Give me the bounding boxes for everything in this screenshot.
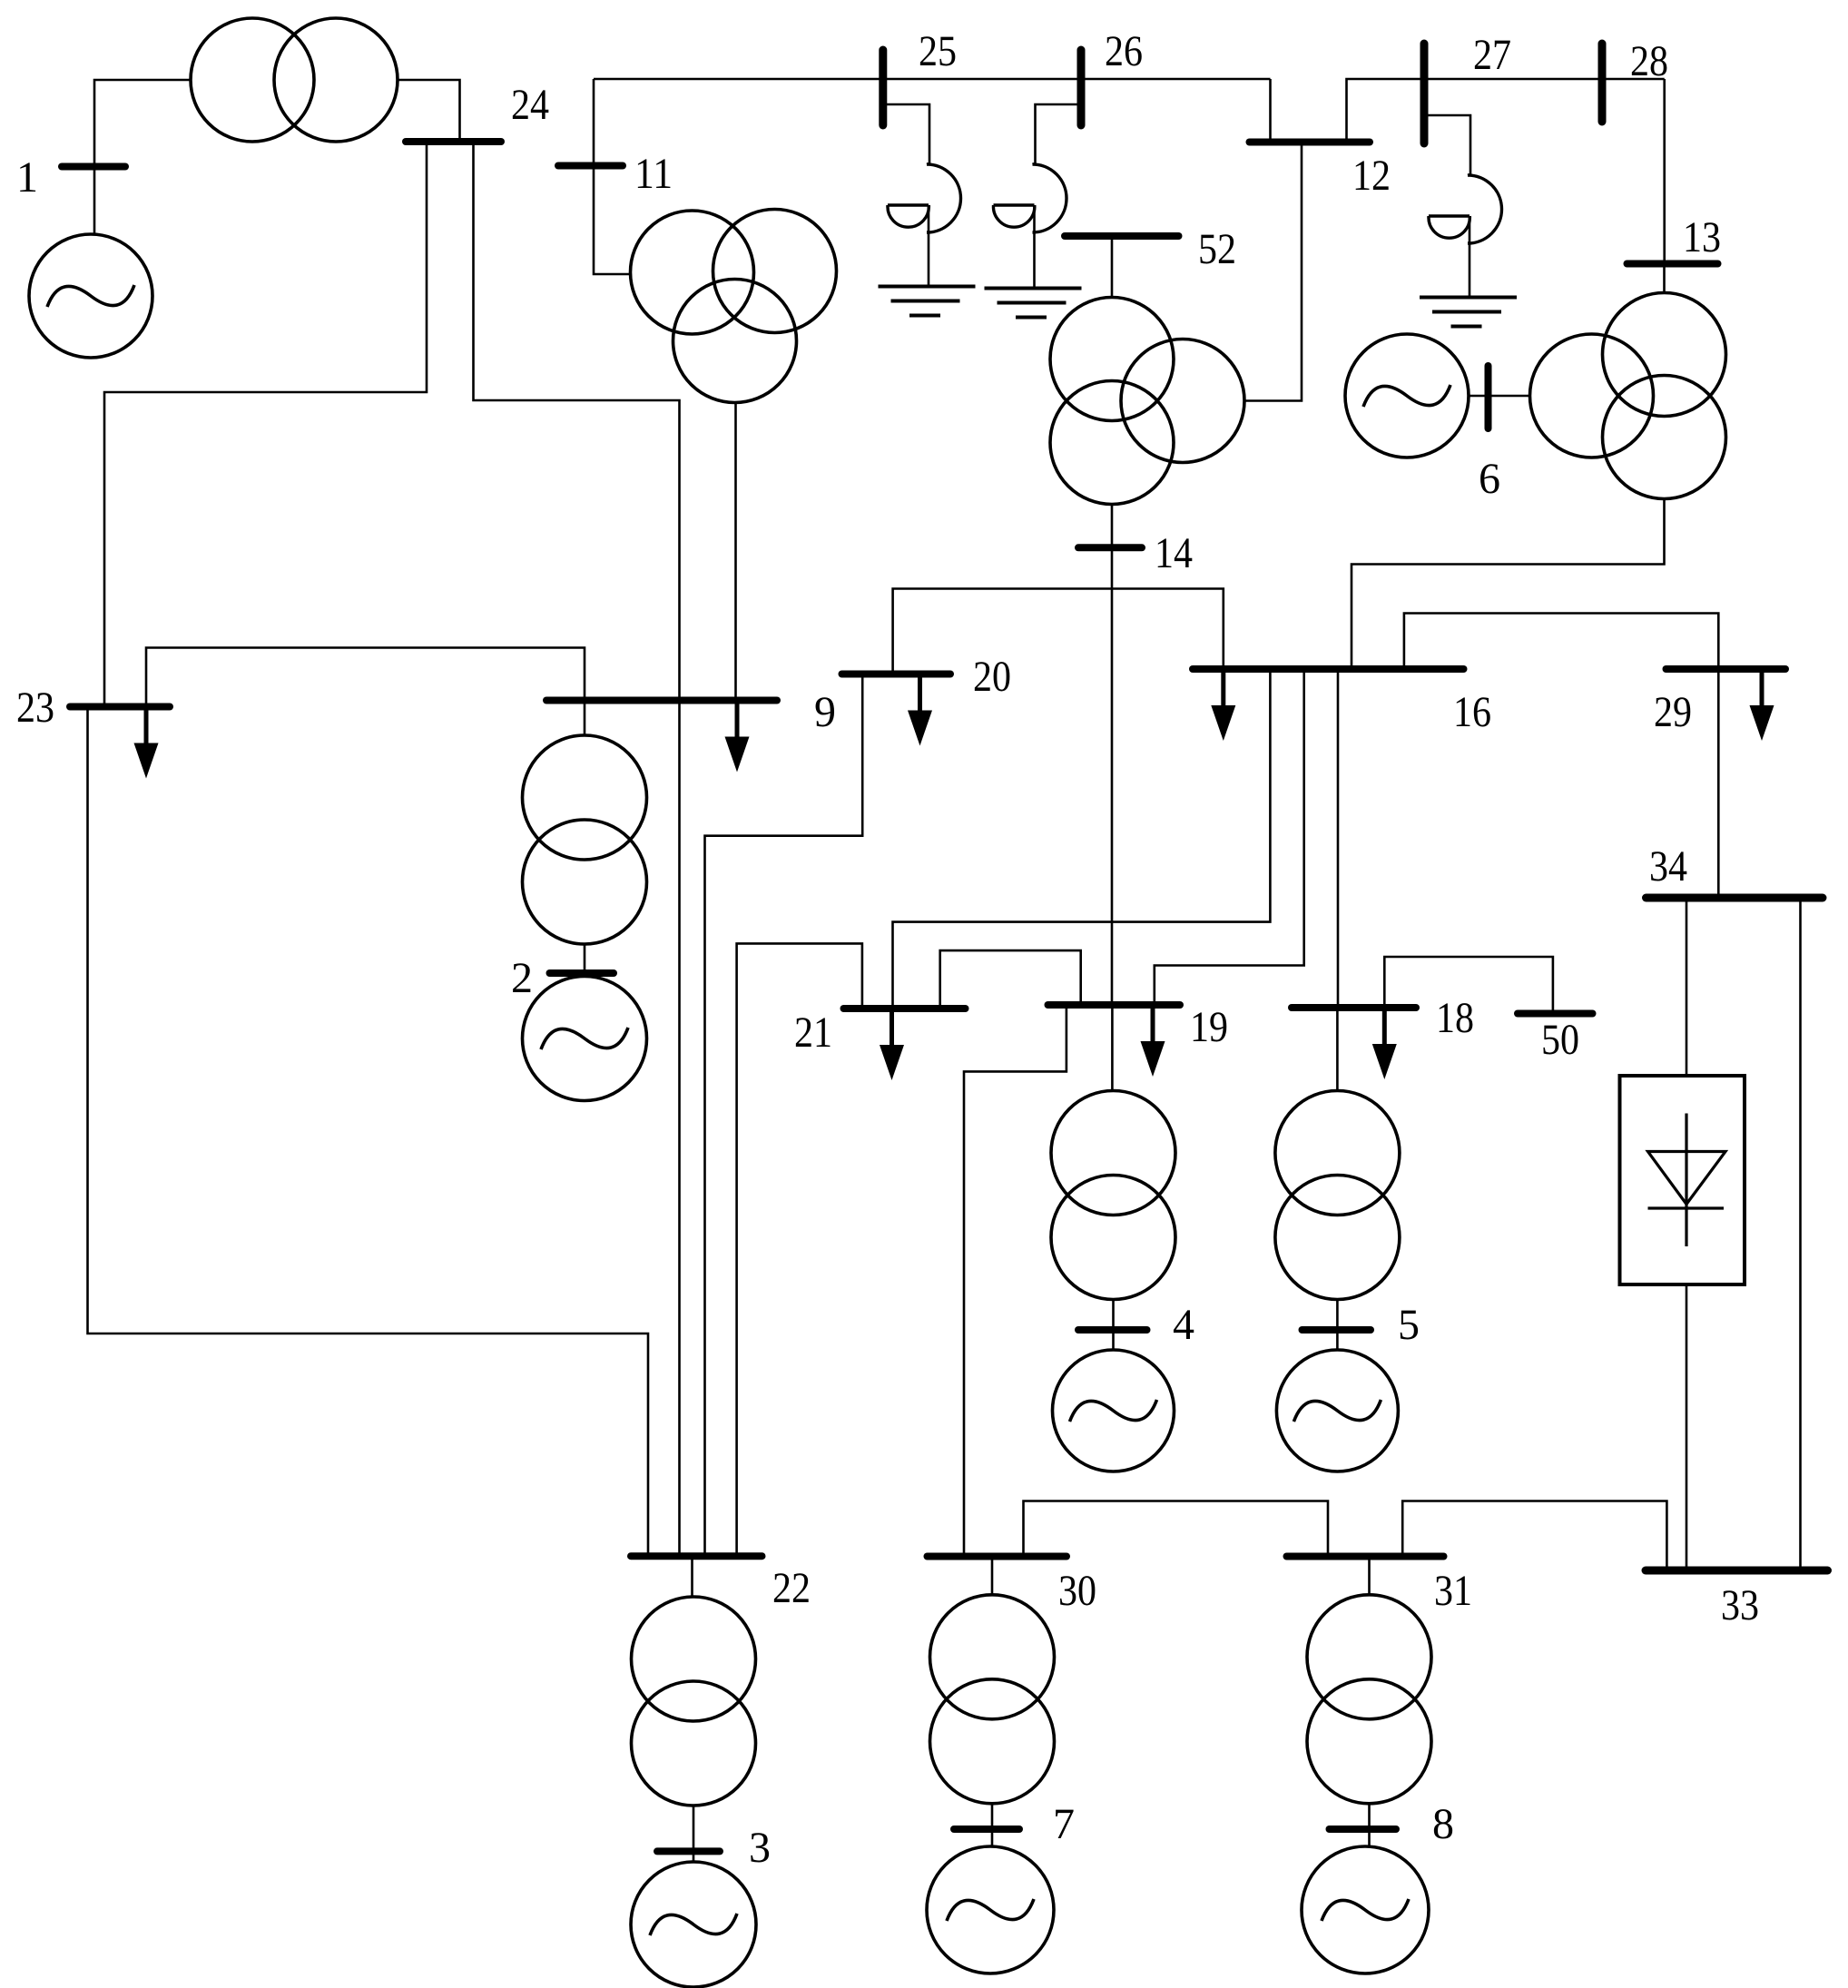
bus 28 (vertical bar) [1598, 44, 1607, 122]
svg-text:13: 13 [1683, 213, 1721, 261]
svg-text:31: 31 [1434, 1567, 1472, 1615]
load arrow bus 16 [1211, 669, 1235, 741]
bus 18 [1292, 1004, 1416, 1011]
wire T8 to bus 8 [1368, 1804, 1371, 1847]
bus 4 [1078, 1326, 1147, 1334]
svg-text:23: 23 [16, 684, 54, 732]
ground of reactor L26 [985, 289, 1082, 318]
bus 29 [1666, 665, 1786, 673]
ground of reactor L25 [879, 287, 976, 316]
bus 33 [1646, 1567, 1828, 1575]
wire bus11 to T11 [594, 166, 631, 275]
wire bus24 through bus9 to bus22 [474, 142, 680, 1556]
generator G4 [1053, 1350, 1175, 1471]
transformer T4 (two-winding) [1051, 1091, 1175, 1300]
wire bus23 long line to bus 22 [88, 707, 649, 1557]
transformer T13 (three-winding) [1530, 293, 1726, 499]
wire bus22 to T3 [691, 1556, 693, 1597]
svg-text:29: 29 [1654, 688, 1692, 736]
wire top line into bus 12 [1269, 79, 1272, 143]
svg-text:33: 33 [1721, 1581, 1759, 1629]
bus 21 [844, 1005, 966, 1012]
transformer T3 (two-winding) [632, 1597, 756, 1806]
ground of reactor L27 [1420, 298, 1517, 327]
wire bus30 to bus 31 [1024, 1501, 1329, 1557]
svg-text:1: 1 [16, 153, 38, 202]
wire bus18 to bus 50 [1384, 957, 1553, 1010]
svg-text:20: 20 [973, 653, 1011, 701]
wire bus19 to T4 [1111, 1005, 1114, 1091]
wire T14 down to bus 14 [1111, 505, 1114, 548]
svg-text:52: 52 [1198, 225, 1236, 273]
svg-text:25: 25 [919, 27, 957, 75]
bus 31 [1287, 1553, 1444, 1560]
svg-text:6: 6 [1479, 455, 1500, 503]
svg-text:22: 22 [772, 1564, 811, 1612]
bus 50 [1518, 1010, 1593, 1018]
wire bus29 down to bus 34 [1717, 669, 1720, 898]
wire T9 to bus 2 [584, 944, 586, 973]
bus 19 [1048, 1001, 1181, 1009]
reactor L27 [1424, 115, 1502, 298]
wire bus24 to bus23 [104, 142, 427, 707]
svg-text:27: 27 [1473, 31, 1511, 79]
wire bus31 to T8 [1368, 1557, 1371, 1596]
wire line 28 corner down to bus 13 [1663, 79, 1666, 264]
reactor L25 [883, 104, 961, 287]
wire T4 to bus 4 [1112, 1300, 1115, 1351]
load arrow bus 18 [1372, 1008, 1397, 1079]
wire T3 to bus 3 [693, 1806, 695, 1862]
wire bus13 to T13 [1663, 264, 1666, 294]
svg-text:5: 5 [1398, 1301, 1420, 1349]
wire bus19 to bus 30 [964, 1005, 1067, 1557]
wire bus16 to bus 18 [1337, 669, 1340, 1008]
bus 52 [1065, 232, 1179, 240]
wire bus34 to converter box [1686, 898, 1688, 1076]
generator G8 [1302, 1846, 1429, 1973]
generator G6 [1345, 334, 1469, 458]
svg-text:12: 12 [1352, 152, 1391, 200]
svg-text:16: 16 [1453, 688, 1491, 736]
svg-text:3: 3 [749, 1824, 771, 1872]
load arrow bus 19 [1141, 1005, 1165, 1077]
converter box [1620, 1076, 1745, 1284]
wire bus11 riser to top line [593, 79, 595, 166]
wire bus16 to bus 29 [1404, 614, 1718, 670]
wire bus34 down to bus 33 [1799, 898, 1802, 1570]
bus 26 (vertical bar) [1077, 50, 1086, 125]
svg-text:8: 8 [1432, 1800, 1454, 1848]
svg-text:18: 18 [1436, 994, 1474, 1042]
svg-text:9: 9 [814, 688, 836, 736]
bus 13 [1627, 261, 1718, 268]
thyristor valve inside box [1648, 1114, 1726, 1247]
load arrow bus 21 [880, 1009, 904, 1080]
transformer T5 (two-winding) [1275, 1091, 1400, 1300]
generator G1 [29, 234, 152, 358]
bus 20 [842, 671, 951, 678]
svg-text:34: 34 [1649, 842, 1687, 891]
svg-text:50: 50 [1541, 1016, 1579, 1064]
wire T7 to bus 7 [991, 1804, 994, 1847]
bus 22 [631, 1552, 762, 1560]
svg-text:4: 4 [1173, 1301, 1194, 1349]
wire box down to bus 33 [1686, 1284, 1688, 1570]
wire bus20 down to bus 22 [705, 674, 863, 1557]
wire G6 to T13 [1469, 395, 1530, 398]
bus 34 [1646, 894, 1823, 902]
wire T24 to bus 24 [398, 80, 460, 142]
svg-text:28: 28 [1630, 37, 1668, 85]
bus 24 [406, 138, 501, 145]
generator G7 [927, 1846, 1054, 1973]
svg-text:11: 11 [634, 150, 673, 198]
load arrow bus 23 [134, 707, 159, 779]
bus 23 [70, 704, 170, 711]
bus 8 [1330, 1826, 1397, 1833]
svg-text:19: 19 [1190, 1003, 1228, 1051]
generator G2 [523, 977, 647, 1101]
bus 7 [954, 1826, 1019, 1833]
reactor L26 [993, 104, 1081, 289]
wire bus18 to T5 [1336, 1008, 1339, 1091]
load arrow bus 29 [1750, 669, 1774, 741]
wire T13 down to bus 16 [1352, 499, 1665, 670]
wire bus21 to bus 19 [940, 950, 1081, 1009]
wire bus30 to T7 [991, 1557, 994, 1596]
wire bus23 to bus9 [146, 648, 585, 707]
wire T5 to bus 5 [1336, 1300, 1339, 1351]
svg-text:30: 30 [1058, 1567, 1096, 1615]
bus 30 [928, 1553, 1067, 1560]
wire bus20 to bus16 horizontal [893, 589, 1224, 674]
wire bus52 to T14 [1111, 236, 1114, 299]
transformer T11 (three-winding) [631, 210, 837, 403]
bus 14 [1078, 544, 1142, 551]
wire bus16 to bus 19 [1155, 669, 1304, 1005]
bus 2 [550, 969, 614, 977]
bus 6 (vertical bar) [1485, 366, 1492, 428]
wire top line buses 11-25-26 [594, 78, 1271, 81]
wire T14 to bus 12 [1244, 143, 1302, 401]
bus 25 (vertical bar) [879, 50, 887, 125]
svg-text:26: 26 [1105, 27, 1143, 75]
wire bus14 down to bus 19 [1111, 547, 1114, 1005]
svg-text:7: 7 [1053, 1800, 1075, 1848]
wire bus9 to T9 [584, 701, 586, 736]
load arrow bus 20 [908, 674, 932, 746]
generator G3 [631, 1862, 756, 1987]
bus 3 [657, 1847, 720, 1855]
wire bus1 to generator G1 [93, 167, 96, 236]
bus 5 [1302, 1326, 1371, 1334]
wire bus31 to bus 33 [1402, 1501, 1666, 1571]
generator G5 [1276, 1350, 1398, 1471]
bus 1 [62, 163, 125, 171]
transformer T14 (three-winding) [1050, 298, 1244, 505]
transformer T9 (two-winding) [523, 735, 647, 944]
bus 11 [558, 162, 623, 170]
bus 9 [546, 697, 777, 704]
svg-text:24: 24 [511, 81, 549, 129]
bus 16 [1193, 665, 1464, 673]
transformer T24 (two-winding) [191, 18, 398, 142]
wire bus21 to bus 22 [737, 943, 862, 1556]
transformer T8 (two-winding) [1307, 1595, 1431, 1804]
bus 27 (vertical bar) [1420, 44, 1429, 143]
bus 12 [1250, 139, 1371, 146]
transformer T7 (two-winding) [930, 1595, 1055, 1804]
wire bus12 riser to line to 27/28 [1347, 79, 1665, 143]
load arrow bus 9 [725, 701, 750, 773]
wire bus1 to transformer T24 [94, 80, 191, 166]
wire T11 tertiary to bus 9 [734, 403, 737, 701]
wire bus16 to bus 21 [893, 669, 1271, 1009]
svg-text:14: 14 [1155, 529, 1193, 577]
svg-text:21: 21 [794, 1009, 832, 1057]
svg-text:2: 2 [511, 954, 533, 1002]
